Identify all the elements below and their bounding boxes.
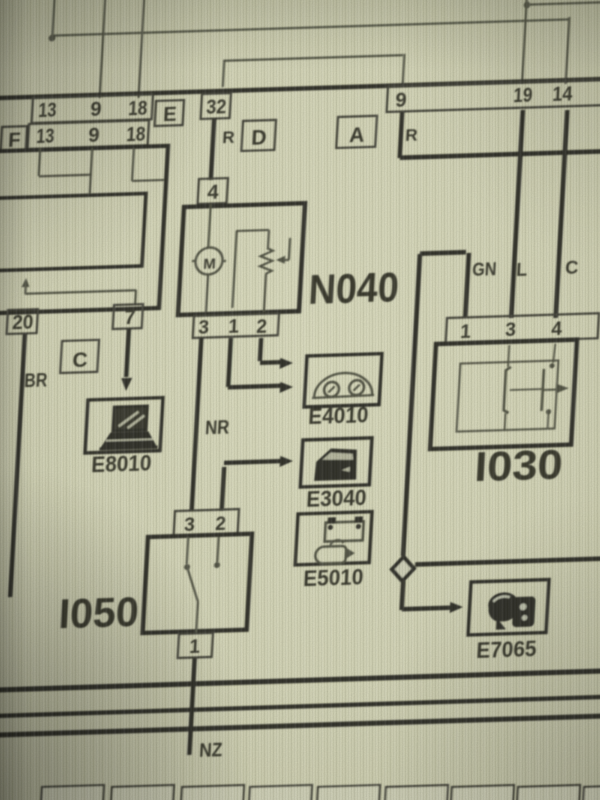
wire: supply drop to pin 19 (522, 0, 527, 84)
wire: diamond to E7065 (arrow) (402, 581, 404, 610)
connector A (336, 116, 377, 148)
connector pin 4 of N040 (198, 178, 228, 204)
module: left control unit outline (0, 146, 168, 314)
wiper arrow of N040 resistor (289, 238, 290, 260)
wire: resistor to pin 2 (264, 274, 266, 312)
connector strip 13-9-18 row 1 (32, 94, 153, 123)
wire: pin 9 internal link (90, 148, 93, 194)
connector strip 9-19-14 (387, 79, 600, 112)
wire: top-right horizontal from right junction (527, 2, 600, 4)
connector E (155, 100, 184, 126)
wire GN bridge into I030 pin 1 (465, 253, 469, 318)
wire: supply drop to pin 13 (52, 0, 54, 38)
switch blade inside I050 (187, 537, 189, 564)
component E5010 battery/washer box (295, 512, 372, 565)
component E3040 door box (300, 438, 372, 487)
icon: lock actuator E7065 (487, 591, 536, 629)
icon: battery E5010 (315, 516, 364, 563)
component N040 blower unit box (178, 203, 305, 315)
wire BR from pin 20 (10, 334, 25, 597)
motor M symbol in N040 (208, 204, 210, 247)
bottom connector strip row (40, 785, 104, 800)
connector pin 20 (7, 309, 38, 334)
wire: diamond right branch (415, 559, 600, 565)
module: inner relay box of left control unit (0, 194, 146, 272)
wire L from pin 19 to I030 pin 3 (511, 110, 523, 318)
wire: main connector bus line (0, 79, 600, 98)
wire: internal bridge in N040 (232, 231, 236, 308)
connector pins 3-2 of I050 (174, 509, 239, 536)
icon: gauges E4010 (312, 372, 375, 398)
wire: N040 pin 1 to E4010 (arrow) (228, 338, 231, 387)
wire: I050 pin 2 to E3040 (arrow) (222, 467, 224, 511)
connector C (60, 340, 99, 373)
component I030 window switch box (430, 340, 577, 449)
ground bus bar 2 (0, 697, 600, 716)
component E8010 diagnostic socket box (85, 398, 163, 453)
icon: computer/tester E8010 (100, 404, 160, 449)
wire: supply drop to pin 9 (100, 0, 106, 98)
connector pin 1 of I050 (178, 633, 213, 658)
connector strip 13-9-18 row 2 (28, 120, 149, 149)
wire: pin 7 internal link with up arrow (134, 290, 137, 305)
component I050 switch box (143, 534, 252, 633)
connector pins 1-3-4 of I030 (446, 313, 599, 343)
ground bus bar 1 (0, 671, 600, 690)
wire: pin 7 to E8010 with down arrow (126, 329, 129, 377)
icon: car door E3040 (314, 448, 358, 481)
node: junction dot right (523, 1, 530, 8)
component E4010 instrument cluster box (304, 354, 382, 407)
wire: top horizontal net from left junction (52, 19, 569, 35)
wire R from pin 32 to N040 pin 4 (211, 118, 214, 180)
connector F (1, 126, 27, 152)
resistor: N040 series resistor zigzag (260, 248, 273, 274)
wire R elbow right of pin 9 (400, 112, 403, 158)
ground bus bar 3 (0, 716, 600, 735)
wire NR from N040 pin 3 to I050 (192, 338, 202, 511)
wire: pin 18 internal link (132, 148, 134, 181)
splice: diamond junction (391, 557, 414, 582)
connector pins 3-1-2 of N040 (193, 313, 279, 338)
node: junction dot left (48, 35, 55, 42)
wire: N040 pin 2 to E4010 (arrow) (260, 338, 261, 361)
connector pin 32 (201, 93, 231, 119)
wire C from pin 14 to I030 pin 4 (556, 110, 568, 318)
connector pin 7 (113, 304, 143, 329)
wire: drop from top net to pin 14 (566, 17, 570, 84)
connector D (241, 120, 276, 151)
wire: pin 13 internal link (39, 148, 41, 176)
wire: bracket net linking pin 32 to pin 9 (223, 62, 224, 87)
switch contacts inside I030 (457, 343, 572, 431)
wire NZ from I050 pin 1 (189, 658, 194, 755)
component E7065 lock actuator box (468, 580, 549, 635)
wire: supply drop to pin 18 (139, 0, 145, 98)
